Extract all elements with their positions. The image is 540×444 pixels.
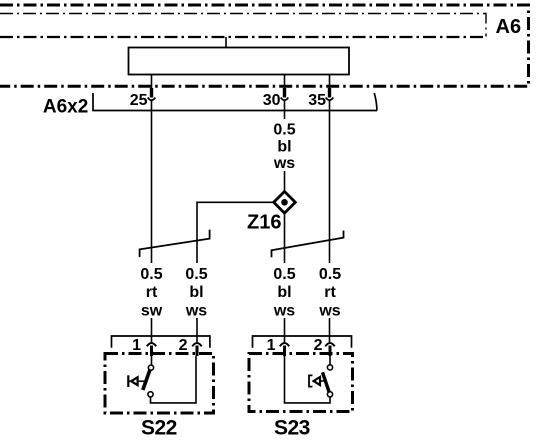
inner dash-dot line thick (bottom of inner area) [0, 36, 484, 38]
svg-text:0.5: 0.5 [319, 266, 341, 283]
svg-text:rt: rt [146, 284, 158, 301]
S22 internal wiring [151, 356, 153, 365]
svg-text:S22: S22 [141, 417, 177, 440]
svg-text:bl: bl [189, 284, 203, 301]
wire pin25 top [151, 75, 153, 89]
svg-text:A6x2: A6x2 [43, 96, 88, 117]
pin socket S22-1 [147, 343, 156, 346]
wire pin35 top [329, 75, 331, 89]
socket pin 35 [328, 88, 331, 98]
svg-text:ws: ws [318, 303, 340, 320]
branch wire from Z16 to w2 [197, 202, 275, 263]
svg-text:1: 1 [267, 337, 276, 354]
svg-text:bl: bl [277, 138, 291, 155]
wire w3 below Z16 [284, 213, 286, 263]
inner dash-dot line thin (top of inner area) [0, 14, 486, 37]
svg-text:ws: ws [273, 303, 295, 320]
svg-text:rt: rt [324, 284, 336, 301]
svg-text:2: 2 [179, 337, 188, 354]
svg-text:bl: bl [277, 284, 291, 301]
connector bracket S23 pins [253, 336, 352, 348]
pin socket S22-2 [192, 343, 201, 346]
control unit A6 dash-dot border [0, 5, 529, 86]
svg-text:1: 1 [132, 337, 141, 354]
svg-text:S23: S23 [274, 417, 310, 440]
svg-text:0.5: 0.5 [273, 122, 295, 139]
inline connector symbol right pair [272, 231, 344, 258]
solder joint Z16 [274, 192, 296, 214]
component block inside A6 [129, 48, 350, 75]
S22 actuation arrow [127, 375, 129, 387]
wire w1 from pin25 down [151, 101, 153, 264]
svg-text:0.5: 0.5 [140, 266, 162, 283]
pin socket S23-1 [280, 343, 289, 346]
S23 actuation arrow [309, 375, 313, 386]
pin socket S23-2 [325, 343, 334, 346]
svg-text:0.5: 0.5 [185, 266, 207, 283]
svg-text:ws: ws [273, 155, 295, 172]
svg-text:sw: sw [141, 303, 163, 320]
wire w4 from pin35 down [329, 101, 331, 264]
socket pin 30 [283, 88, 286, 98]
svg-text:Z16: Z16 [247, 212, 281, 234]
stub wire from block to inner line [225, 37, 227, 48]
switch S23 dash-dot box [249, 354, 353, 412]
wire w3 from pin30 down to Z16 [284, 101, 286, 120]
S23 internal wiring [285, 356, 331, 403]
wire pin30 top [284, 75, 286, 89]
socket pin 25 [150, 88, 153, 98]
switch S22 dash-dot box [105, 354, 214, 414]
svg-text:30: 30 [263, 92, 281, 109]
svg-text:2: 2 [314, 337, 323, 354]
svg-text:A6: A6 [496, 16, 522, 38]
connector A6x2 rail [93, 93, 377, 111]
svg-text:25: 25 [130, 92, 148, 109]
svg-text:ws: ws [185, 303, 207, 320]
svg-text:35: 35 [308, 92, 326, 109]
inline connector symbol left pair [140, 230, 210, 257]
connector bracket S22 pins [112, 336, 210, 348]
svg-text:0.5: 0.5 [273, 266, 295, 283]
